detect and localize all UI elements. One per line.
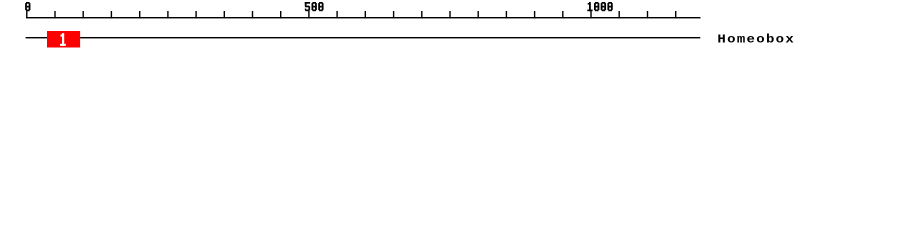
sequence line	[26, 37, 701, 38]
domain box 1 (red)	[47, 31, 80, 48]
ruler label 500	[305, 2, 324, 11]
svg-text:Homeobox: Homeobox	[717, 32, 795, 46]
domain number 1 (white)	[60, 33, 66, 46]
ruler ticks	[26, 11, 676, 18]
ruler axis line	[26, 17, 701, 18]
ruler label 0	[25, 2, 30, 11]
ruler label 1000	[587, 2, 612, 11]
